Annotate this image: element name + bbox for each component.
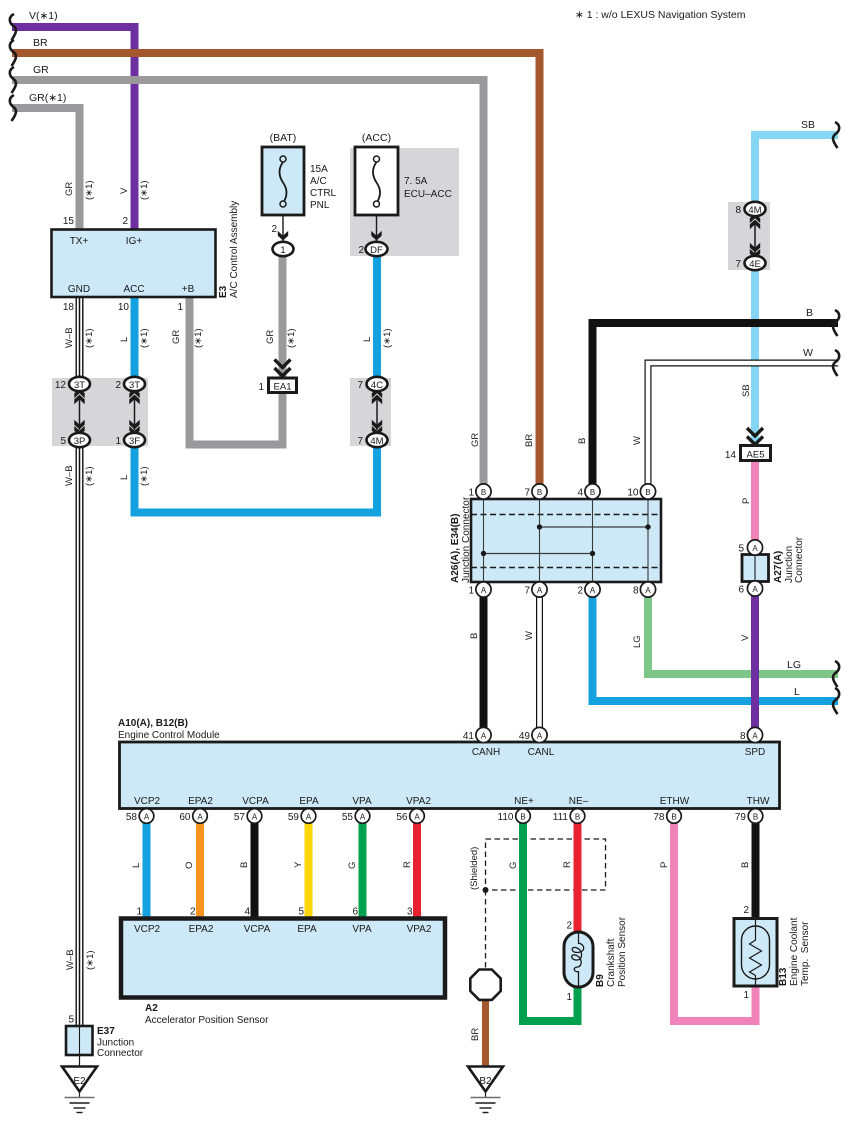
- svg-text:1: 1: [468, 488, 474, 499]
- svg-text:L: L: [362, 337, 373, 342]
- svg-text:A: A: [537, 732, 543, 741]
- svg-text:1: 1: [743, 990, 749, 1001]
- svg-text:(∗1): (∗1): [84, 328, 95, 348]
- svg-text:4: 4: [244, 907, 250, 918]
- arrow into circle 1: [278, 231, 288, 241]
- svg-text:CANL: CANL: [528, 747, 555, 758]
- sensor B9 Crankshaft Position Sensor: [564, 921, 593, 1004]
- svg-text:2: 2: [115, 380, 121, 391]
- pin 2(A): [585, 582, 600, 597]
- wire R red ECM 56(A) to A2 pin 3: [413, 823, 421, 918]
- svg-text:5: 5: [60, 436, 66, 447]
- svg-text:(∗1): (∗1): [84, 180, 95, 200]
- svg-text:A: A: [752, 585, 758, 594]
- wire break squiggle BR: [10, 40, 16, 66]
- wire P pink from AE5 to A27 5(A): [751, 460, 759, 541]
- ECM pin 79(B): [748, 809, 763, 824]
- svg-text:BR: BR: [524, 434, 535, 447]
- svg-text:4: 4: [577, 488, 583, 499]
- svg-text:NE+: NE+: [514, 796, 534, 807]
- svg-text:B: B: [590, 488, 595, 497]
- svg-text:49: 49: [519, 731, 531, 742]
- svg-text:Accelerator Position Sensor: Accelerator Position Sensor: [145, 1015, 269, 1026]
- ECM pin 60(A): [193, 809, 208, 824]
- svg-text:Crankshaft: Crankshaft: [606, 938, 617, 987]
- wire L blue ECM 58(A) to A2 pin 1: [143, 823, 151, 918]
- svg-text:1: 1: [280, 245, 285, 256]
- svg-text:1: 1: [177, 302, 183, 313]
- ECM box A10(A), B12(B) Engine Control Module: [118, 718, 780, 809]
- svg-text:A10(A), B12(B): A10(A), B12(B): [118, 718, 188, 729]
- svg-text:7: 7: [357, 436, 363, 447]
- svg-text:VCPA: VCPA: [244, 924, 271, 935]
- svg-text:ECU–ACC: ECU–ACC: [404, 189, 452, 200]
- wire O orange ECM 60(A) to A2 pin 2: [196, 823, 204, 918]
- svg-text:BR: BR: [470, 1028, 481, 1041]
- junction connector A26(A), E34(B): [471, 499, 661, 582]
- svg-text:G: G: [347, 862, 358, 869]
- svg-text:B: B: [469, 633, 480, 639]
- svg-text:DF: DF: [370, 245, 383, 256]
- svg-text:A26(A), E34(B): A26(A), E34(B): [450, 514, 461, 583]
- pin 8(A): [640, 582, 655, 597]
- svg-text:E3: E3: [218, 285, 229, 298]
- svg-text:CTRL: CTRL: [310, 188, 337, 199]
- svg-text:Junction Connector: Junction Connector: [461, 496, 472, 583]
- svg-text:B: B: [806, 307, 813, 319]
- wire B black THW 79(B) to B13 pin 2: [752, 823, 760, 919]
- svg-text:4E: 4E: [749, 259, 761, 270]
- ECM pin 110(B): [516, 809, 531, 824]
- svg-text:111: 111: [553, 812, 569, 823]
- ECM pin 57(A): [247, 809, 262, 824]
- svg-text:L: L: [131, 863, 142, 868]
- svg-text:18: 18: [63, 302, 75, 313]
- svg-text:B13: B13: [778, 967, 789, 986]
- svg-text:P: P: [741, 498, 752, 504]
- gray background block around ACC fuse: [350, 148, 459, 256]
- svg-text:V(∗1): V(∗1): [29, 10, 58, 22]
- svg-text:55: 55: [342, 812, 354, 823]
- svg-text:Y: Y: [293, 861, 304, 868]
- wire G green ECM 55(A) to A2 pin 6: [359, 823, 367, 918]
- svg-text:W: W: [803, 347, 813, 359]
- svg-text:2: 2: [122, 216, 128, 227]
- svg-text:G: G: [508, 862, 519, 869]
- svg-text:∗ 1 : w/o LEXUS Navigation Sys: ∗ 1 : w/o LEXUS Navigation System: [575, 9, 746, 21]
- svg-text:10: 10: [627, 488, 639, 499]
- svg-text:59: 59: [288, 812, 300, 823]
- pin 7(B): [532, 484, 547, 499]
- svg-text:5: 5: [738, 544, 744, 555]
- svg-text:3P: 3P: [74, 436, 86, 447]
- svg-text:A2: A2: [145, 1003, 158, 1014]
- svg-text:B: B: [753, 813, 758, 822]
- svg-text:B: B: [577, 438, 588, 444]
- fuse 15A A/C CTRL PNL (BAT): [262, 132, 337, 215]
- svg-text:4C: 4C: [371, 380, 383, 391]
- svg-text:A: A: [481, 586, 487, 595]
- wire B black from right edge to junction 4(B): [593, 323, 839, 485]
- svg-text:VCP2: VCP2: [134, 924, 161, 935]
- svg-text:6: 6: [352, 907, 358, 918]
- svg-text:GR(∗1): GR(∗1): [29, 92, 66, 104]
- shield dashed drop wire to octagon: [485, 890, 487, 969]
- svg-text:10: 10: [118, 302, 130, 313]
- svg-text:(∗1): (∗1): [382, 328, 393, 348]
- svg-text:V: V: [740, 634, 751, 641]
- svg-text:ETHW: ETHW: [660, 796, 690, 807]
- svg-text:57: 57: [234, 812, 246, 823]
- svg-text:B: B: [740, 862, 751, 868]
- ECM pin 59(A): [301, 809, 316, 824]
- svg-text:EPA2: EPA2: [189, 924, 214, 935]
- svg-text:L: L: [794, 686, 800, 698]
- svg-text:7. 5A: 7. 5A: [404, 176, 428, 187]
- svg-text:5: 5: [68, 1015, 74, 1026]
- svg-text:E2: E2: [73, 1076, 86, 1087]
- svg-text:4M: 4M: [370, 436, 383, 447]
- wire B black from junction 1(A) to CANH 41(A): [480, 594, 488, 728]
- svg-text:6: 6: [738, 585, 744, 596]
- svg-text:1: 1: [136, 907, 142, 918]
- wire GR(*1) gray: short horizontal, down to TX+: [12, 108, 80, 230]
- wire E37 to E2: [79, 1055, 81, 1066]
- wire break squiggle SB right: [833, 122, 839, 148]
- svg-text:3T: 3T: [129, 380, 140, 391]
- wire BR brown: top horizontal, down to junction 7(B): [12, 53, 540, 485]
- ECM pin 49(A) CANL: [532, 727, 547, 742]
- svg-text:2: 2: [271, 224, 277, 235]
- node: shield junction dot: [483, 887, 489, 893]
- svg-text:GR: GR: [171, 330, 182, 344]
- svg-text:2: 2: [577, 586, 583, 597]
- wire L blue from ACC pin 10 down to 3T: [131, 297, 139, 378]
- svg-text:VCPA: VCPA: [242, 796, 269, 807]
- shield octagon B9: [470, 970, 500, 1000]
- svg-text:B: B: [671, 813, 676, 822]
- svg-text:A: A: [752, 544, 758, 553]
- svg-text:A: A: [360, 813, 366, 822]
- svg-text:B: B: [239, 862, 250, 868]
- svg-text:A: A: [590, 586, 596, 595]
- svg-text:VPA2: VPA2: [407, 924, 432, 935]
- svg-text:LG: LG: [632, 635, 643, 648]
- gray junction block 4M/4E top right: [728, 202, 770, 270]
- svg-text:L: L: [119, 475, 130, 480]
- svg-text:GND: GND: [68, 284, 90, 295]
- svg-text:A: A: [306, 813, 312, 822]
- svg-text:W–B: W–B: [64, 465, 75, 486]
- svg-text:(ACC): (ACC): [362, 132, 391, 144]
- svg-text:A: A: [645, 586, 651, 595]
- sensor box A2 Accelerator Position Sensor: [121, 919, 445, 998]
- shield dashed box around B9 wires: [486, 839, 606, 890]
- wire L blue from 3F down, right, up to 4M: [135, 446, 378, 513]
- svg-text:A/C: A/C: [310, 176, 327, 187]
- svg-text:EPA: EPA: [297, 924, 317, 935]
- svg-text:2: 2: [190, 907, 196, 918]
- svg-text:5: 5: [298, 907, 304, 918]
- svg-text:W–B: W–B: [65, 949, 76, 970]
- wire break squiggle GR(*1): [10, 95, 16, 121]
- wire GR gray: top horizontal, down to junction 1(B): [12, 80, 484, 485]
- svg-text:8: 8: [740, 731, 746, 742]
- pin 4(B): [585, 484, 600, 499]
- wire V purple from A27 6(A) to SPD 8(A): [751, 595, 759, 728]
- svg-text:GR: GR: [265, 330, 276, 344]
- svg-text:8: 8: [735, 205, 741, 216]
- wire BR brown from octagon to B2 ground: [482, 1000, 489, 1066]
- svg-text:60: 60: [179, 812, 191, 823]
- svg-text:Temp. Sensor: Temp. Sensor: [800, 921, 811, 986]
- svg-text:(∗1): (∗1): [139, 328, 150, 348]
- junction pair 7(4C)/7(4M): [357, 377, 387, 447]
- pin 10(B): [640, 484, 655, 499]
- wire B black ECM 57(A) to A2 pin 4: [251, 823, 259, 918]
- svg-text:A27(A): A27(A): [773, 551, 784, 583]
- sensor B13 Engine Coolant Temp. Sensor: [734, 905, 777, 1001]
- svg-text:VCP2: VCP2: [134, 796, 161, 807]
- op box: A/C Control Assembly E3: [52, 230, 216, 298]
- ground E2: [62, 1067, 97, 1113]
- svg-text:(∗1): (∗1): [84, 466, 95, 486]
- wire L blue from junction 2(A) down, right to edge: [593, 594, 839, 701]
- wire W white from junction 7(A) to CANL 49(A): [536, 594, 543, 728]
- svg-text:Position Sensor: Position Sensor: [617, 916, 628, 987]
- svg-text:TX+: TX+: [70, 236, 89, 247]
- svg-text:(Shielded): (Shielded): [469, 847, 480, 890]
- svg-text:(BAT): (BAT): [270, 132, 297, 144]
- svg-text:2: 2: [743, 905, 749, 916]
- wire break squiggle B right: [833, 310, 839, 336]
- svg-text:PNL: PNL: [310, 200, 330, 211]
- svg-text:R: R: [562, 861, 573, 868]
- wire L blue from 4C up to DF circle: [373, 256, 381, 378]
- svg-text:56: 56: [396, 812, 408, 823]
- svg-text:GR: GR: [64, 182, 75, 196]
- arrow into circle DF: [371, 231, 381, 241]
- svg-text:1: 1: [258, 382, 264, 393]
- wire W white from right edge to junction 10(B): [648, 363, 838, 485]
- wire break squiggle W right: [833, 350, 839, 376]
- gray junction block 4C/4M: [350, 378, 391, 446]
- wire G green NE+ 110(B) down, right, up to B9 pin 1: [523, 823, 578, 1021]
- svg-text:VPA2: VPA2: [406, 796, 431, 807]
- svg-text:B: B: [575, 813, 580, 822]
- svg-text:W: W: [632, 436, 643, 445]
- wire W-B from GND pin 18 down to E37: [76, 297, 84, 1026]
- pin 7(A): [532, 582, 547, 597]
- svg-text:ACC: ACC: [123, 284, 144, 295]
- svg-text:Engine Coolant: Engine Coolant: [789, 917, 800, 986]
- svg-text:+B: +B: [182, 284, 195, 295]
- svg-text:Connector: Connector: [794, 536, 805, 583]
- gray junction block 3T/3P/3F: [52, 378, 148, 446]
- wire V(*1) purple: top horizontal, down to IG+: [12, 27, 135, 230]
- svg-text:EA1: EA1: [274, 382, 292, 393]
- splice AE5: [725, 428, 771, 461]
- svg-text:7: 7: [524, 488, 530, 499]
- junction connector E37: [66, 1015, 93, 1056]
- svg-text:P: P: [659, 862, 670, 868]
- svg-text:12: 12: [55, 380, 67, 391]
- svg-text:A: A: [752, 732, 758, 741]
- pin 1(A): [476, 582, 491, 597]
- ECM pin 8(A) SPD: [747, 727, 762, 742]
- wire Y yellow ECM 59(A) to A2 pin 5: [305, 823, 313, 918]
- svg-text:7: 7: [524, 586, 530, 597]
- svg-text:Junction: Junction: [97, 1038, 134, 1049]
- svg-text:SB: SB: [741, 384, 752, 397]
- svg-text:A: A: [481, 732, 487, 741]
- ECM pin 56(A): [410, 809, 425, 824]
- svg-text:R: R: [402, 861, 413, 868]
- svg-text:NE–: NE–: [569, 796, 589, 807]
- svg-text:A/C Control Assembly: A/C Control Assembly: [229, 201, 240, 298]
- svg-text:7: 7: [357, 380, 363, 391]
- wire R red NE- 111(B) to B9 pin 2: [574, 823, 582, 933]
- svg-text:A: A: [414, 813, 420, 822]
- svg-text:58: 58: [126, 812, 138, 823]
- wire SB from right edge down through 4M/4E to AE5: [755, 135, 838, 203]
- connector circle 1 (BAT feed): [273, 242, 294, 256]
- ECM pin 78(B): [667, 809, 682, 824]
- svg-text:SB: SB: [801, 119, 815, 131]
- svg-text:B2: B2: [479, 1076, 492, 1087]
- svg-text:B9: B9: [595, 974, 606, 987]
- svg-text:1: 1: [468, 586, 474, 597]
- wire LG from junction 8(A) down, right to edge: [648, 594, 838, 674]
- svg-text:LG: LG: [787, 659, 801, 671]
- svg-text:1: 1: [115, 436, 121, 447]
- wire fuse ACC to circle DF: [376, 215, 378, 242]
- svg-text:(∗1): (∗1): [139, 180, 150, 200]
- svg-text:A: A: [537, 586, 543, 595]
- junction pair 12(3T)/5(3P): [55, 377, 90, 447]
- ECM pin 111(B): [570, 809, 585, 824]
- svg-text:3F: 3F: [129, 436, 140, 447]
- ECM pin 58(A): [139, 809, 154, 824]
- wire P pink ETHW 78(B) down, right, up to B13 pin 1: [674, 823, 756, 1021]
- svg-text:(∗1): (∗1): [286, 328, 297, 348]
- wire GR from EA1 down, left and up to +B pin 1: [190, 297, 283, 445]
- svg-text:(∗1): (∗1): [139, 466, 150, 486]
- svg-text:7: 7: [735, 259, 741, 270]
- svg-text:L: L: [119, 337, 130, 342]
- svg-text:EPA2: EPA2: [188, 796, 213, 807]
- svg-text:GR: GR: [470, 433, 481, 447]
- fuse 7.5A ECU-ACC (ACC): [355, 132, 452, 215]
- svg-text:BR: BR: [33, 37, 48, 49]
- svg-text:A: A: [197, 813, 203, 822]
- svg-text:GR: GR: [33, 64, 49, 76]
- svg-text:A: A: [144, 813, 150, 822]
- svg-text:W–B: W–B: [64, 327, 75, 348]
- svg-text:41: 41: [463, 731, 475, 742]
- svg-text:B: B: [537, 488, 542, 497]
- svg-text:B: B: [481, 488, 486, 497]
- wire break squiggle L right: [833, 688, 839, 714]
- junction pair 2(3T)/1(3F): [115, 377, 145, 447]
- svg-text:15A: 15A: [310, 164, 328, 175]
- svg-text:(∗1): (∗1): [193, 328, 204, 348]
- svg-text:3T: 3T: [74, 380, 85, 391]
- svg-text:O: O: [184, 862, 195, 869]
- svg-text:3: 3: [407, 907, 413, 918]
- svg-text:VPA: VPA: [352, 796, 372, 807]
- ground B2: [468, 1067, 503, 1113]
- svg-text:CANH: CANH: [472, 747, 500, 758]
- svg-text:AE5: AE5: [747, 450, 765, 461]
- svg-text:B: B: [520, 813, 525, 822]
- splice EA1: [258, 360, 296, 394]
- svg-text:W: W: [524, 631, 535, 640]
- svg-text:B: B: [645, 488, 650, 497]
- svg-text:14: 14: [725, 450, 737, 461]
- svg-text:IG+: IG+: [126, 236, 143, 247]
- connector circle DF: [366, 242, 388, 256]
- wire GR from (BAT) fuse circle down into EA1: [279, 256, 287, 378]
- svg-text:Connector: Connector: [97, 1048, 144, 1059]
- junction pair 8(4M)/7(4E): [735, 202, 765, 270]
- svg-text:110: 110: [498, 812, 514, 823]
- svg-text:1: 1: [566, 992, 572, 1003]
- wire break squiggle V(*1): [10, 14, 16, 40]
- wire break squiggle GR: [10, 67, 16, 93]
- pin 1(B): [476, 484, 491, 499]
- ECM pin 55(A): [355, 809, 370, 824]
- svg-text:(∗1): (∗1): [85, 950, 96, 970]
- svg-text:V: V: [119, 187, 130, 194]
- svg-text:Engine Control Module: Engine Control Module: [118, 730, 220, 741]
- svg-text:EPA: EPA: [299, 796, 319, 807]
- svg-text:A: A: [252, 813, 258, 822]
- svg-text:2: 2: [358, 245, 364, 256]
- svg-text:4M: 4M: [748, 205, 761, 216]
- svg-text:8: 8: [633, 586, 639, 597]
- junction connector A27(A): [738, 540, 768, 596]
- svg-text:E37: E37: [97, 1026, 115, 1037]
- svg-text:2: 2: [566, 921, 572, 932]
- ECM pin 41(A) CANH: [476, 727, 491, 742]
- svg-text:SPD: SPD: [745, 747, 766, 758]
- wire fuse BAT to circle 1: [282, 215, 284, 242]
- svg-text:79: 79: [735, 812, 747, 823]
- svg-text:15: 15: [63, 216, 75, 227]
- svg-text:VPA: VPA: [352, 924, 372, 935]
- wire break squiggle LG right: [833, 661, 839, 687]
- svg-text:THW: THW: [747, 796, 770, 807]
- svg-text:78: 78: [653, 812, 665, 823]
